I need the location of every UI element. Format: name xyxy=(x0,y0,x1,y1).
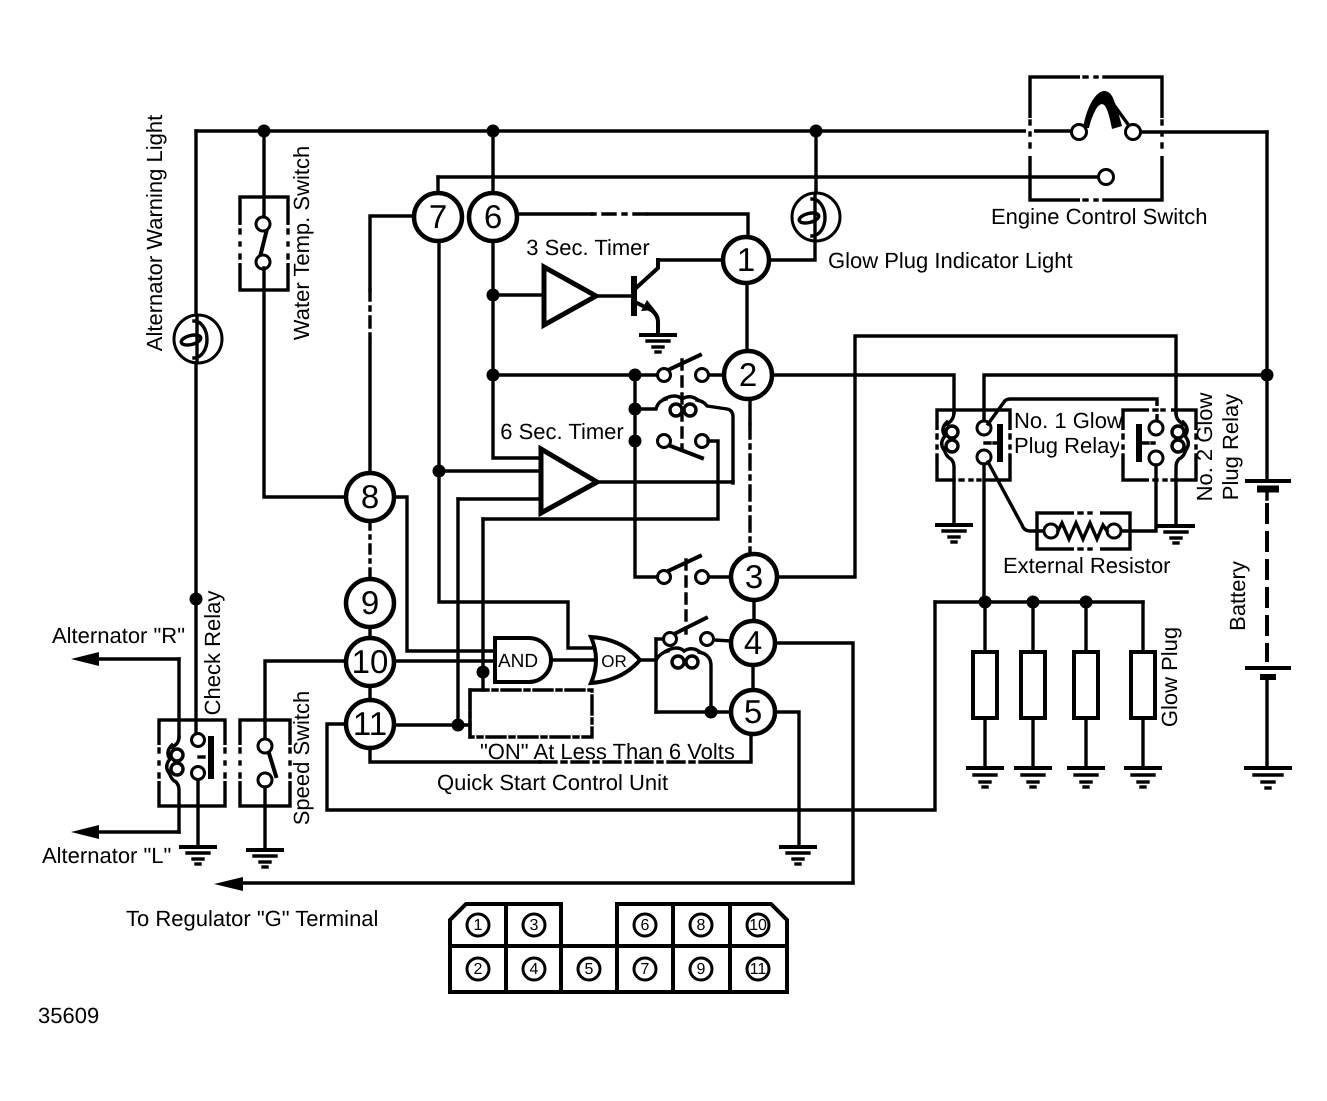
wire: contact rail to pin 2 switch xyxy=(493,373,658,376)
wire: relay 1 coil to ground xyxy=(952,480,955,523)
svg-text:9: 9 xyxy=(361,584,379,621)
svg-text:2: 2 xyxy=(474,961,483,978)
wire: pin 6 down to 3 sec timer input and 2-contact rail xyxy=(491,241,494,375)
node: junction top bus / pin 6 riser xyxy=(487,125,500,138)
wire: pin 9 to pin 10 xyxy=(368,627,371,638)
connector pin 11 xyxy=(747,958,769,980)
wire: glow plug bus xyxy=(935,600,1143,603)
wire: pin 3 to pin 4 xyxy=(752,600,755,621)
pin 7 of quick start control unit xyxy=(414,193,462,241)
svg-text:Water Temp. Switch: Water Temp. Switch xyxy=(289,146,314,340)
node: junction relay A contact lead xyxy=(629,435,642,448)
wire: pin 1 to glow plug indicator light xyxy=(769,242,815,260)
svg-text:Engine Control Switch: Engine Control Switch xyxy=(991,204,1207,229)
svg-text:7: 7 xyxy=(429,198,447,235)
svg-text:Plug Relay: Plug Relay xyxy=(1014,433,1120,458)
amplifier: 6 sec timer triangle xyxy=(440,375,733,513)
svg-text:2: 2 xyxy=(739,356,757,393)
wire: check relay coil to alternator L arrow xyxy=(71,825,179,839)
svg-text:3 Sec. Timer: 3 Sec. Timer xyxy=(526,235,649,260)
connector pin 8 xyxy=(690,914,712,936)
glow plug 4 xyxy=(1126,602,1160,787)
wire: battery to relay 1 contact feed xyxy=(984,375,1267,421)
wire: relay 2 coil to ground xyxy=(1174,480,1177,524)
ground: speed switch ground xyxy=(248,850,282,867)
wire: pin 2 to pin 3 (dash-dot) xyxy=(748,399,751,424)
wire: mechanical link relay A (dashed) xyxy=(680,360,683,448)
svg-text:Alternator "L": Alternator "L" xyxy=(42,843,171,868)
relay: relay 2 coil xyxy=(1172,413,1188,480)
resistor: external resistor element R1 xyxy=(1044,523,1121,539)
ground: 3 sec timer emitter ground xyxy=(641,335,675,352)
svg-text:To Regulator "G" Terminal: To Regulator "G" Terminal xyxy=(126,906,378,931)
relay: check relay contacts and armature xyxy=(192,734,215,780)
svg-text:"ON" At Less Than 6 Volts: "ON" At Less Than 6 Volts xyxy=(480,739,735,764)
connector pin 4 xyxy=(523,958,545,980)
wire: check relay bottom contact to ground xyxy=(196,780,199,845)
relay: relay 2 contacts and armature xyxy=(1136,421,1163,465)
relay: relay B coil ("ON" relay) xyxy=(656,639,731,712)
wire: indicator light riser xyxy=(814,131,817,194)
relay: No. 2 Glow Plug Relay enclosure (dash-dot) xyxy=(1119,406,1200,484)
relay: No. 1 Glow Plug Relay enclosure (dash-dot) xyxy=(933,410,1014,484)
svg-text:3: 3 xyxy=(745,558,763,595)
switch: Water Temp. Switch contacts and blade xyxy=(256,217,270,269)
node: junction relay A coil lead xyxy=(629,403,642,416)
switch: Water Temp. Switch enclosure xyxy=(236,197,292,290)
svg-text:11: 11 xyxy=(353,705,387,742)
lamp: Glow Plug Indicator Light bulb xyxy=(792,193,840,241)
node: junction pin 7 drop / 6 sec timer input xyxy=(433,465,446,478)
wire: OR output to relay B xyxy=(640,658,656,661)
relay: Check Relay enclosure xyxy=(155,720,229,806)
svg-text:OR: OR xyxy=(601,652,627,671)
switch: engine control switch rotor blade xyxy=(1083,91,1122,129)
transistor Q1 of 3 sec timer xyxy=(596,260,723,332)
lamp: Alternator Warning Light bulb xyxy=(174,315,222,363)
ground: check relay ground xyxy=(181,847,215,864)
wire: pin 11 to ON-box node xyxy=(394,723,470,726)
node: junction relay B coil / pin 5 wire xyxy=(705,706,718,719)
resistor: External Resistor enclosure (dash-dot) xyxy=(1037,509,1130,553)
svg-text:5: 5 xyxy=(744,693,762,730)
wire: mechanical link relay B (dashed) xyxy=(684,560,687,633)
wire: pin 1 to pin 2 xyxy=(745,283,748,351)
wire: pin 3 riser to relay 2 feed xyxy=(777,336,1176,577)
svg-text:35609: 35609 xyxy=(38,1003,99,1028)
svg-text:4: 4 xyxy=(530,961,539,978)
box: ON at less than 6 volts unit (dash-dot) xyxy=(470,690,592,737)
wire: to regulator G terminal arrow xyxy=(214,877,853,891)
wire: pin 5 to common ground xyxy=(775,712,799,845)
wire: AND output to OR input xyxy=(551,658,594,661)
relay: relay 1 contacts and armature xyxy=(977,421,1003,464)
svg-text:Speed Switch: Speed Switch xyxy=(289,691,314,826)
svg-text:AND: AND xyxy=(498,651,538,672)
pin 2 of quick start control unit xyxy=(724,351,772,399)
node: junction pin6 line / contact rail xyxy=(487,369,500,382)
svg-text:Check Relay: Check Relay xyxy=(200,591,225,716)
svg-text:Quick Start Control Unit: Quick Start Control Unit xyxy=(437,770,668,795)
glow plug 1 xyxy=(968,602,1002,787)
pin 4 of quick start control unit xyxy=(731,621,775,665)
amplifier: 3 sec timer buffer triangle xyxy=(493,267,596,325)
wire: relay 1 output to glow plug bus xyxy=(982,464,985,602)
svg-text:10: 10 xyxy=(352,643,389,680)
svg-text:6: 6 xyxy=(484,198,502,235)
gate: OR gate U2 xyxy=(591,637,640,683)
switch: speed switch contacts and blade xyxy=(258,739,276,787)
connector pin 9 xyxy=(690,958,712,980)
wire: engine control switch to battery line xyxy=(1141,130,1267,133)
svg-text:11: 11 xyxy=(750,961,767,978)
wire: relay 2 output to external resistor xyxy=(1121,465,1156,531)
wire: speed switch to ground xyxy=(263,787,266,848)
pin 1 of quick start control unit xyxy=(723,237,769,283)
relay: check relay coil xyxy=(167,737,183,832)
connector: control unit connector block xyxy=(450,904,787,992)
svg-text:Plug Relay: Plug Relay xyxy=(1218,394,1243,500)
node: junction pin 11 wire / riser xyxy=(452,719,465,732)
wire: pin 4 to pin 5 xyxy=(751,665,754,690)
svg-text:External Resistor: External Resistor xyxy=(1003,553,1171,578)
switch: Speed Switch enclosure xyxy=(236,720,294,806)
switch: relay B contact to pin 4 (open) xyxy=(656,618,731,646)
node: junction contact rail / relay A rail xyxy=(629,369,642,382)
svg-text:10: 10 xyxy=(749,917,767,934)
node: dot on warning light wire xyxy=(190,593,203,606)
svg-text:Glow Plug: Glow Plug xyxy=(1157,627,1182,727)
wire: pin 10 to pin 11 xyxy=(368,686,371,700)
connector pin 1 xyxy=(467,914,489,936)
svg-text:8: 8 xyxy=(697,917,706,934)
node: junction pin6 line / 3 sec timer input xyxy=(487,289,500,302)
pin 10 of quick start control unit xyxy=(346,638,394,686)
relay: relay A coil (6 sec timer relay) xyxy=(635,396,733,483)
svg-text:No. 1 Glow: No. 1 Glow xyxy=(1014,408,1123,433)
svg-text:No. 2 Glow: No. 2 Glow xyxy=(1192,392,1217,501)
wire: pin 10 to AND gate middle input xyxy=(394,659,495,662)
wire: pin 8 to AND gate upper input xyxy=(394,497,495,651)
svg-text:3: 3 xyxy=(530,917,539,934)
ground: relay 2 ground xyxy=(1159,526,1193,543)
node: junction top bus / indicator light riser xyxy=(810,125,823,138)
wire: pin 8 to pin 9 (dash-dot) xyxy=(368,521,371,579)
wire: relay 1 to external resistor xyxy=(988,462,1044,531)
wire: alternator R arrow to check relay coil xyxy=(71,652,179,737)
relay: relay A contact (closed blade) xyxy=(483,435,718,520)
switch: Engine Control Switch enclosure (dash-dot) xyxy=(1026,73,1166,204)
wire: water temp switch to pin 8 xyxy=(264,268,346,497)
wire: relay A rail down to pin 3 switch xyxy=(635,375,657,577)
wire: pin 2 to relay 1 coil feed xyxy=(772,375,954,412)
svg-text:6 Sec. Timer: 6 Sec. Timer xyxy=(500,419,623,444)
wire: relay 1 contact jumper to relay 2 xyxy=(988,399,1157,424)
connector pin 3 xyxy=(523,914,545,936)
connector pin 7 xyxy=(634,958,656,980)
wire: speed switch to pin 10 xyxy=(265,661,346,740)
connector pin 5 xyxy=(578,958,600,980)
node: junction bus / plug 2 xyxy=(1027,596,1040,609)
switch: pin 3 timer contact (open) xyxy=(658,556,732,584)
pin 8 of quick start control unit xyxy=(346,473,394,521)
wire: pin 4 to regulator drop xyxy=(775,643,853,883)
wire: top +B bus from warning-light branch to Engine Control Switch xyxy=(196,129,1072,132)
node: junction top bus / water temp switch xyxy=(258,125,271,138)
pin 11 of quick start control unit xyxy=(346,700,394,748)
node: junction AND gate lower input xyxy=(477,666,490,679)
wire: pin 7 to pin 8 (partial dash-dot) xyxy=(370,216,414,473)
svg-text:1: 1 xyxy=(737,241,755,278)
node: junction bus / plug 1 xyxy=(979,596,992,609)
wire: pin 11 node riser to 6 sec timer input xyxy=(456,499,459,725)
battery: Battery symbol with long cable xyxy=(1247,481,1289,766)
svg-text:Glow Plug Indicator Light: Glow Plug Indicator Light xyxy=(828,248,1073,273)
pin 3 of quick start control unit xyxy=(731,554,777,600)
relay: relay 1 coil xyxy=(942,412,958,480)
wire: pin 6 riser xyxy=(491,131,494,193)
pin 6 of quick start control unit xyxy=(469,193,517,241)
wire: relay A contact drop to AND gate input xyxy=(481,519,484,690)
wire: water temp switch riser xyxy=(262,131,265,218)
ground: relay 1 ground xyxy=(937,525,971,542)
wire: warning light to check relay xyxy=(194,363,197,736)
svg-text:4: 4 xyxy=(744,624,762,661)
connector pin 6 xyxy=(634,914,656,936)
svg-text:1: 1 xyxy=(474,917,483,934)
glow plug 2 xyxy=(1016,602,1050,787)
connector pin 10 xyxy=(747,914,769,936)
wire: pin 11 loop to glow plug bus xyxy=(327,602,935,810)
wire: pin 7 drop to 6 sec timer and OR gate xyxy=(439,241,592,648)
node: junction bus / plug 3 xyxy=(1080,596,1093,609)
svg-text:Alternator Warning Light: Alternator Warning Light xyxy=(142,115,167,351)
svg-text:Battery: Battery xyxy=(1225,561,1250,631)
ground: control unit common ground xyxy=(781,847,815,864)
pin 5 of quick start control unit xyxy=(731,690,775,734)
wire: engine control switch ACC line from pin 7 xyxy=(438,175,1099,178)
svg-text:6: 6 xyxy=(641,917,650,934)
ground: battery ground xyxy=(1246,768,1290,788)
switch: engine control switch contacts xyxy=(1072,125,1087,140)
connector pin 2 xyxy=(467,958,489,980)
node: junction battery / relay contact feed xyxy=(1261,369,1274,382)
pin 9 of quick start control unit xyxy=(346,579,394,627)
svg-text:5: 5 xyxy=(585,961,594,978)
svg-text:7: 7 xyxy=(641,961,650,978)
wire: warning light branch upper segment xyxy=(194,131,197,315)
wire: pin 11 to pin 5 (partial dash-dot) xyxy=(370,734,751,762)
wire: pin 7 riser xyxy=(436,177,439,193)
switch: pin 2 timer contact (open) xyxy=(658,355,725,382)
wire: pin 6 to timer rail with dash-dot section xyxy=(517,212,592,215)
svg-text:Alternator "R": Alternator "R" xyxy=(52,623,185,648)
glow plug 3 xyxy=(1069,602,1103,787)
wire: battery feed line xyxy=(1265,132,1268,478)
gate: AND gate U1 xyxy=(495,638,551,682)
svg-text:8: 8 xyxy=(361,478,379,515)
svg-text:9: 9 xyxy=(697,961,706,978)
